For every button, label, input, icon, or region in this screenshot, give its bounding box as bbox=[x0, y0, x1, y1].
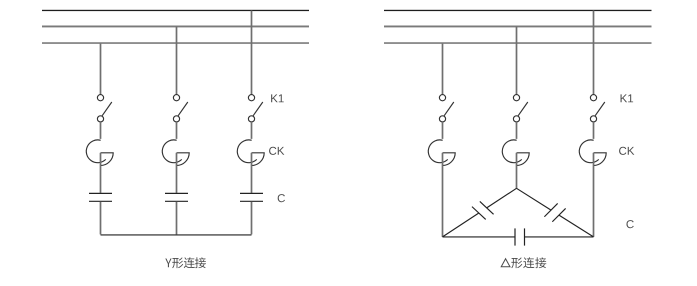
wire: delta bottom side right segment bbox=[525, 236, 594, 238]
wire: contactor CK A (delta) down bbox=[442, 153, 444, 237]
contactor CK main contact B (Y) bbox=[162, 140, 189, 166]
wire: switch K1 A (delta) to contactor CK A (delta) bbox=[442, 122, 444, 139]
wire: delta side from right delta side B-C bbox=[559, 215, 594, 237]
wire: contactor CK B (Y) down bbox=[176, 153, 178, 193]
caption symbol: triangle (delta) bbox=[501, 259, 510, 267]
switch K1 pole B (Y) bbox=[173, 95, 187, 122]
wire: star-point joining bus (Y) bbox=[101, 234, 252, 236]
wire: phase B (delta) drop from bus L2 bbox=[516, 27, 518, 95]
wire: capacitor C C to star point (Y) bbox=[251, 202, 253, 235]
capacitor C on right delta side B-C bbox=[544, 203, 565, 221]
wire: phase A (Y) drop from bus L3 bbox=[100, 44, 102, 95]
label CK (Y circuit) bbox=[269, 147, 284, 155]
bus line L1 (right circuit) bbox=[384, 10, 652, 11]
bus line L1 (left circuit) bbox=[42, 10, 309, 11]
wire: delta bottom side left segment bbox=[443, 236, 516, 238]
capacitor C phase A (Y) bbox=[89, 193, 112, 201]
wire: phase A (delta) drop from bus L3 bbox=[442, 44, 444, 95]
bus line L2 (left circuit) bbox=[42, 26, 309, 28]
switch K1 pole C (delta) bbox=[590, 95, 604, 122]
contactor CK main contact A (delta) bbox=[428, 140, 455, 166]
contactor CK main contact B (delta) bbox=[502, 140, 529, 166]
contactor CK main contact C (delta) bbox=[579, 140, 606, 166]
wire: phase C (delta) drop from bus L1 bbox=[593, 11, 595, 95]
wire: contactor CK A (Y) down bbox=[100, 153, 102, 193]
label CK (delta circuit) bbox=[619, 147, 634, 155]
wire: contactor CK B (delta) down bbox=[516, 153, 518, 189]
wire: delta side to right delta side B-C bbox=[517, 188, 552, 210]
switch K1 pole B (delta) bbox=[513, 95, 527, 122]
wire: delta side to left delta side A-B bbox=[443, 213, 479, 237]
caption text: 形连接 (delta) bbox=[511, 257, 546, 268]
label K1 (Y circuit) bbox=[271, 94, 284, 102]
wire: switch K1 C (delta) to contactor CK C (delta) bbox=[593, 122, 595, 139]
bus line L3 (right circuit) bbox=[384, 42, 652, 44]
wire: capacitor C B to star point (Y) bbox=[176, 202, 178, 235]
wire: switch K1 C (Y) to contactor CK C (Y) bbox=[251, 122, 253, 139]
wire: switch K1 B (Y) to contactor CK B (Y) bbox=[176, 122, 178, 139]
label C (delta circuit) bbox=[626, 220, 633, 228]
wire: capacitor C A to star point (Y) bbox=[100, 202, 102, 235]
wire: phase C (Y) drop from bus L1 bbox=[251, 11, 253, 95]
wire: delta side from left delta side A-B bbox=[487, 188, 517, 208]
capacitor C on bottom delta side A-C bbox=[515, 228, 525, 245]
bus line L2 (right circuit) bbox=[384, 26, 652, 28]
contactor CK main contact A (Y) bbox=[86, 140, 113, 166]
contactor CK main contact C (Y) bbox=[237, 140, 264, 166]
capacitor C on left delta side A-B bbox=[472, 201, 494, 219]
label C (Y circuit) bbox=[278, 194, 285, 202]
switch K1 pole C (Y) bbox=[248, 95, 262, 122]
capacitor C phase C (Y) bbox=[240, 193, 263, 201]
switch K1 pole A (delta) bbox=[439, 95, 453, 122]
wire: contactor CK C (Y) down bbox=[251, 153, 253, 193]
label K1 (delta circuit) bbox=[621, 94, 634, 102]
caption text: Y形连接 bbox=[165, 257, 206, 268]
bus line L3 (left circuit) bbox=[42, 42, 309, 44]
switch K1 pole A (Y) bbox=[97, 95, 111, 122]
wire: switch K1 A (Y) to contactor CK A (Y) bbox=[100, 122, 102, 139]
wire: phase B (Y) drop from bus L2 bbox=[176, 27, 178, 95]
capacitor C phase B (Y) bbox=[165, 193, 188, 201]
wire: contactor CK C (delta) down bbox=[593, 153, 595, 237]
wire: switch K1 B (delta) to contactor CK B (delta) bbox=[516, 122, 518, 139]
